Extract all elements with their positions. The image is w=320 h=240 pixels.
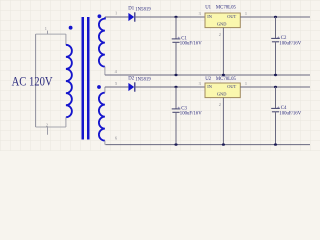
svg-text:5: 5 — [115, 81, 117, 86]
wire: D2 to U2 IN — [135, 86, 205, 88]
svg-text:3: 3 — [199, 11, 201, 16]
svg-text:OUT: OUT — [227, 84, 236, 89]
node: junction C4 top — [274, 86, 277, 88]
wire: U1 GND to ground rail — [222, 28, 224, 75]
wire: D1 to U1 IN — [135, 16, 205, 18]
svg-text:100uF/16V: 100uF/16V — [180, 41, 202, 46]
svg-text:OUT: OUT — [227, 14, 236, 19]
transformer primary polarity dot — [69, 26, 73, 30]
svg-text:1: 1 — [115, 11, 117, 16]
svg-text:2: 2 — [219, 32, 221, 37]
diode D1 — [128, 12, 134, 21]
transformer secondary winding 2 bottom lead — [104, 141, 106, 145]
svg-text:1: 1 — [245, 81, 247, 86]
wire: C3 upper lead — [175, 87, 177, 109]
node: U2 GND on bottom rail — [222, 143, 225, 145]
svg-text:+ C4: + C4 — [277, 106, 287, 111]
wire: C1 upper lead — [175, 17, 177, 39]
wire: C3 lower lead — [175, 112, 177, 144]
wire: C4 upper lead — [275, 87, 277, 108]
transformer primary top lead — [65, 34, 67, 45]
capacitor C2 — [271, 38, 280, 41]
transformer secondary winding 2 polarity dot — [97, 85, 101, 89]
transformer core bar left — [82, 17, 85, 140]
svg-text:1: 1 — [45, 26, 47, 31]
svg-text:1N5819: 1N5819 — [135, 7, 151, 12]
transformer primary bottom lead — [65, 117, 67, 127]
transformer secondary winding 2 top lead — [104, 87, 106, 93]
svg-text:D2: D2 — [128, 77, 134, 82]
transformer secondary winding 1 bottom lead — [104, 67, 106, 75]
svg-text:1N5819: 1N5819 — [135, 77, 151, 82]
transformer secondary winding 1 polarity dot — [98, 14, 102, 18]
svg-text:U2: U2 — [205, 77, 211, 82]
capacitor C1 — [172, 39, 181, 42]
node: junction C3 top — [174, 86, 177, 88]
svg-text:+ C2: + C2 — [277, 36, 287, 41]
node: C3 bottom on bottom rail — [174, 143, 177, 145]
capacitor C3 — [172, 109, 181, 112]
svg-text:1: 1 — [245, 11, 247, 16]
svg-text:IN: IN — [207, 84, 212, 89]
node: C4 bottom on bottom rail — [274, 143, 277, 145]
wire: C2 lower lead — [275, 42, 277, 75]
wire: U2 GND to bottom rail — [222, 98, 224, 145]
ground rail 2 (bottom circuit) — [105, 144, 310, 146]
wire: C2 upper lead — [275, 17, 277, 38]
svg-text:100uF/16V: 100uF/16V — [279, 41, 301, 46]
svg-text:GND: GND — [217, 92, 227, 97]
ground rail 1 (top circuit) — [105, 74, 310, 76]
wire: transformer pin5 to D2 — [105, 86, 128, 88]
svg-text:100uF/16V: 100uF/16V — [180, 111, 202, 116]
wire: U1 OUT to right — [240, 16, 310, 18]
node: C1 bottom on rail1 — [174, 74, 177, 76]
regulator U1 — [205, 13, 240, 28]
transformer core bar right — [87, 17, 90, 140]
svg-text:D1: D1 — [128, 7, 134, 12]
node: C2 bottom on rail1 — [274, 74, 277, 76]
transformer primary winding — [66, 45, 72, 117]
svg-text:IN: IN — [207, 14, 212, 19]
transformer secondary winding 1 — [99, 17, 105, 66]
AC source pin 1 stub — [47, 31, 49, 34]
wire: U2 OUT to right — [240, 86, 310, 88]
wire: C1 lower lead — [175, 42, 177, 75]
wire top: transformer pin1 to D1 — [105, 16, 128, 18]
svg-text:2: 2 — [46, 122, 48, 127]
node: junction C2 top — [274, 16, 277, 18]
wire: C4 lower lead — [275, 112, 277, 145]
transformer secondary winding 2 — [99, 93, 105, 141]
regulator U2 — [205, 83, 240, 98]
svg-text:3: 3 — [199, 81, 201, 86]
node: junction C1 top — [174, 16, 177, 18]
svg-text:2: 2 — [219, 102, 221, 107]
svg-text:GND: GND — [217, 22, 227, 27]
svg-text:MC78L05: MC78L05 — [216, 6, 237, 11]
svg-text:AC 120V: AC 120V — [12, 75, 53, 89]
node: U1 GND on rail1 — [222, 74, 225, 76]
AC source pin 2 stub — [47, 127, 49, 135]
svg-text:100uF/16V: 100uF/16V — [279, 111, 301, 116]
capacitor C4 — [271, 108, 280, 111]
svg-text:MC78L05: MC78L05 — [216, 77, 237, 82]
diode D2 — [128, 82, 134, 91]
svg-text:U1: U1 — [205, 6, 211, 11]
AC source box outline — [36, 34, 66, 127]
